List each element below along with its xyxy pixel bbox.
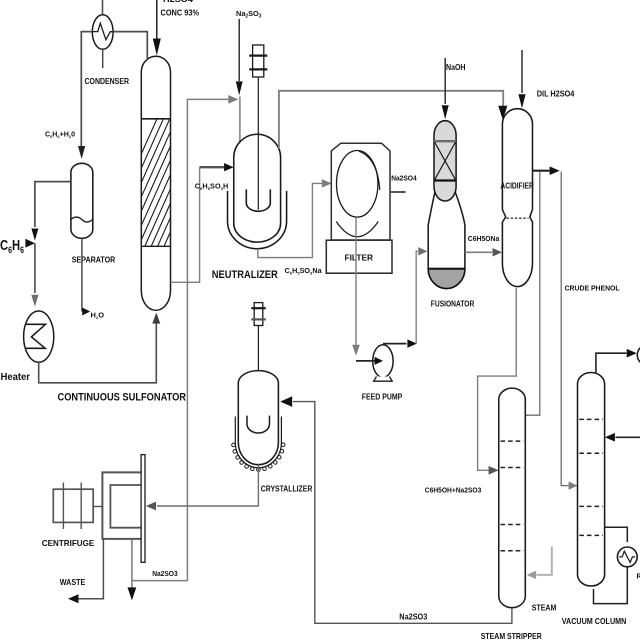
condenser (heat-exchanger circle with zigzag) <box>92 15 113 50</box>
arrow up into sulfonator bottom <box>152 313 160 324</box>
wire condenser to sulfonator dome <box>113 32 147 59</box>
wire feed junction into neutralizer dome <box>239 97 241 143</box>
svg-text:FEED PUMP: FEED PUMP <box>362 393 403 402</box>
wire into pump <box>356 360 375 362</box>
filter drum crescent arc <box>359 151 380 190</box>
svg-text:C6H5SO3Na: C6H5SO3Na <box>285 268 322 276</box>
separator vessel <box>71 163 93 238</box>
wire acidifier overhead out <box>533 170 550 172</box>
svg-text:VACUUM COLUMN: VACUUM COLUMN <box>562 617 627 626</box>
svg-text:WASTE: WASTE <box>60 578 86 587</box>
svg-text:FILTER: FILTER <box>345 253 374 263</box>
wire Na2SO3 recycle riser <box>132 99 229 580</box>
arrow into fusionator <box>418 247 427 255</box>
condenser overhead line from top edge <box>102 0 104 15</box>
centrifuge coupling <box>93 506 102 508</box>
continuous sulfonator column shell <box>141 56 170 310</box>
overhead condenser circle (clipped at edge) <box>637 345 640 366</box>
wire DIL H2SO4 feed <box>521 50 523 93</box>
svg-text:CONTINUOUS SULFONATOR: CONTINUOUS SULFONATOR <box>58 392 187 404</box>
wire Na2SO4 outlet stub <box>390 191 406 193</box>
stripper tray dashed 2 <box>501 467 524 469</box>
arrow feed into steam stripper <box>489 466 499 475</box>
svg-text:Na2SO4: Na2SO4 <box>391 174 417 183</box>
arrow NaOH into fusionator <box>442 105 449 119</box>
arrow into heater top <box>31 295 38 307</box>
fusionator bottom dome (filled) <box>428 269 465 289</box>
crystallizer agitator shaft <box>257 326 259 434</box>
svg-text:CRYSTALLIZER: CRYSTALLIZER <box>261 485 313 494</box>
vacuum column <box>578 373 605 586</box>
wire NaOH feed <box>444 58 446 104</box>
wire sulfonator product <box>171 167 200 282</box>
wire crude phenol down <box>561 172 569 486</box>
wire solids discharge <box>131 540 133 588</box>
arrow H2SO4 into sulfonator <box>153 39 161 56</box>
svg-text:STEAM STRIPPER: STEAM STRIPPER <box>481 631 542 640</box>
wire vacuum overhead <box>596 353 627 373</box>
svg-text:Na2SO3: Na2SO3 <box>399 613 427 622</box>
svg-text:Heater: Heater <box>1 371 31 383</box>
stripper tray dashed 1 <box>501 440 524 442</box>
arrow solids down <box>128 587 137 600</box>
wire acidifier bottoms to stripper <box>478 288 517 470</box>
svg-text:FUSIONATOR: FUSIONATOR <box>431 300 475 309</box>
neutralizer stirrer motor <box>253 45 264 77</box>
neutralizer outer jacket cup <box>228 191 287 249</box>
svg-text:CONC 93%: CONC 93% <box>161 8 200 18</box>
arrow WASTE left <box>68 594 79 603</box>
arrow DIL H2SO4 into acidifier <box>518 94 525 108</box>
crystallizer scalloped bumps <box>232 443 285 472</box>
crystallizer vessel <box>238 371 278 465</box>
arrow overhead right <box>550 166 560 175</box>
svg-text:C6H6: C6H6 <box>0 238 24 255</box>
heater (oval with sigma coil) <box>24 311 54 362</box>
arrow C6H5ONa into acidifier <box>493 248 503 256</box>
wire reboiler return <box>594 567 628 604</box>
wire condenser outlet to separator <box>81 32 92 147</box>
wire column to reboiler <box>605 527 628 542</box>
neutralizer vessel shell <box>234 134 281 242</box>
wire riser to fusionator <box>416 251 418 343</box>
wire neutralizer product to filter <box>258 183 323 257</box>
condenser bottom stub <box>102 49 104 68</box>
svg-text:ACIDIFIER: ACIDIFIER <box>500 182 534 191</box>
wire branch down to stripper top side <box>525 172 540 416</box>
feed pump circle <box>373 345 393 378</box>
svg-text:NEUTRALIZER: NEUTRALIZER <box>212 269 278 281</box>
arrow C6H6 into junction <box>25 239 35 248</box>
centrifuge casing bracket inner <box>110 485 142 528</box>
wire crystallizer outlet to centrifuge <box>157 465 258 506</box>
wire steam inlet <box>537 546 552 575</box>
svg-text:H2SO4: H2SO4 <box>163 0 194 4</box>
vacuum column tray dashed 1 <box>579 418 603 420</box>
filter base box <box>326 240 392 273</box>
wire junction down to heater <box>34 243 36 293</box>
wire heater to sulfonator bottom <box>39 322 157 383</box>
wire product to neutralizer (thick) <box>200 166 225 168</box>
filter housing <box>331 143 390 240</box>
arrow into acidifier dome left <box>498 106 507 120</box>
separator liquid level wave <box>71 217 93 222</box>
wire reflux return <box>616 436 640 438</box>
filter drum ellipse <box>337 151 378 218</box>
vacuum column tray dashed 3 <box>579 505 603 507</box>
svg-text:DIL H2SO4: DIL H2SO4 <box>537 90 575 99</box>
acidifier vessel shell <box>502 109 532 287</box>
arrow steam into stripper <box>527 571 537 579</box>
fusionator upper capsule <box>434 121 456 201</box>
svg-text:C6H5OH+Na2SO3: C6H5OH+Na2SO3 <box>425 486 482 495</box>
svg-text:H2O: H2O <box>91 311 105 321</box>
wire Na2SO3 feed <box>238 19 240 81</box>
svg-text:STEAM: STEAM <box>532 604 557 613</box>
acidifier waist dashed line <box>507 217 529 219</box>
wire pump discharge <box>383 343 407 345</box>
centrifuge motor box <box>53 489 93 522</box>
reboiler circle with zigzag <box>617 547 637 567</box>
wire separator bottoms <box>81 238 83 311</box>
arrow into pump <box>375 357 384 365</box>
wire separator overhead out left <box>35 182 71 227</box>
arrow bottoms into crystallizer <box>280 396 292 407</box>
svg-text:CONDENSER: CONDENSER <box>85 76 130 86</box>
svg-text:NaOH: NaOH <box>446 63 466 72</box>
arrow overhead into condenser <box>627 349 637 358</box>
neutralizer agitator shaft <box>257 77 259 210</box>
vacuum column tray dashed 2 <box>579 452 603 454</box>
svg-text:SEPARATOR: SEPARATOR <box>72 255 116 265</box>
vacuum column tray dashed 4 <box>579 534 603 536</box>
fusionator bed top line <box>434 140 456 142</box>
svg-text:CRUDE PHENOL: CRUDE PHENOL <box>565 284 620 293</box>
svg-text:C6H6+H20: C6H6+H20 <box>45 132 75 140</box>
stripper tray dashed 3 <box>501 524 524 526</box>
crystallizer impeller <box>247 416 270 433</box>
centrifuge casing bracket outer <box>102 472 142 539</box>
wire neutralizer vapor / NaOH header <box>279 91 503 149</box>
wire waste line <box>79 539 104 599</box>
arrow Na2SO3 into junction <box>236 81 243 95</box>
arrow recycle into feed junction <box>228 95 238 104</box>
arrow H2O outlet <box>82 308 90 316</box>
fusionator bed bottom line <box>434 179 456 181</box>
filter bottom arc <box>336 222 378 237</box>
svg-text:C6H5ONa: C6H5ONa <box>468 234 500 243</box>
arrow into filter <box>322 179 332 187</box>
svg-text:C6H5SO3H: C6H5SO3H <box>195 184 228 192</box>
crystallizer cooling jacket <box>235 417 281 468</box>
svg-text:CENTRIFUGE: CENTRIFUGE <box>42 538 95 548</box>
svg-text:Na2SO3: Na2SO3 <box>152 569 178 578</box>
svg-text:REBOILER: REBOILER <box>637 574 640 581</box>
centrifuge pusher plate bar <box>141 455 145 563</box>
feed pump base <box>374 377 393 382</box>
arrow reflux into column <box>605 433 615 442</box>
arrow C6H5SO3H into neutralizer <box>224 163 234 171</box>
arrow into separator top <box>78 146 85 159</box>
fusionator X cross <box>435 142 456 180</box>
arrow crude phenol into vacuum column <box>569 482 578 490</box>
wire filtrate down to pump <box>355 217 357 345</box>
svg-text:Na2SO3: Na2SO3 <box>236 9 262 20</box>
neutralizer impeller <box>246 189 270 211</box>
wire stripper bottoms Na2SO3 <box>293 402 512 624</box>
wire H2SO4 feed <box>156 0 158 40</box>
arrow down to C6H6 junction <box>31 229 38 241</box>
arrow pump discharge <box>407 339 417 347</box>
wire C6H5ONa fusionator outlet <box>465 251 492 253</box>
arrow filtrate down <box>352 345 360 356</box>
crystallizer stirrer motor <box>254 303 263 326</box>
stripper tray dashed 4 <box>501 550 524 552</box>
fusionator lower body <box>428 192 465 289</box>
steam stripper column <box>499 388 526 608</box>
arrow into centrifuge <box>146 502 156 511</box>
